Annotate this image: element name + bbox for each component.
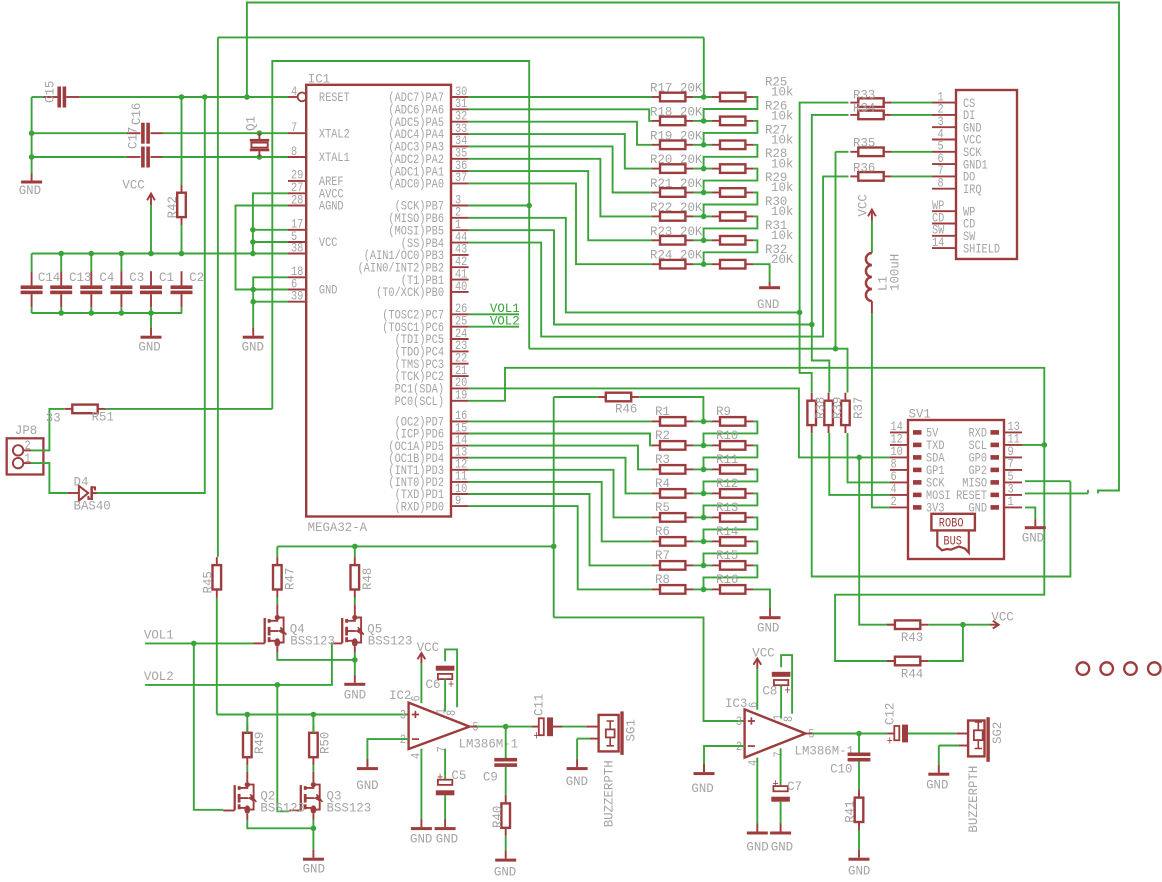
svg-text:IRQ: IRQ [963,182,982,198]
svg-text:8: 8 [444,710,460,716]
svg-text:20K: 20K [680,80,703,95]
svg-text:7: 7 [771,751,787,757]
svg-text:R14: R14 [716,523,739,538]
svg-text:GND: GND [410,831,433,846]
svg-text:BUZZERPTH: BUZZERPTH [601,760,616,827]
svg-text:R21: R21 [650,176,673,191]
svg-text:BSS123: BSS123 [290,633,335,648]
svg-text:R10: R10 [716,427,738,442]
svg-text:R41: R41 [842,800,857,823]
svg-text:R38: R38 [813,397,828,419]
svg-text:R5: R5 [655,499,670,514]
svg-text:R35: R35 [853,135,875,150]
svg-text:RESET: RESET [319,90,350,106]
svg-text:C4: C4 [99,270,114,285]
svg-text:GND: GND [691,780,714,795]
svg-text:R20: R20 [650,152,672,167]
svg-text:VOL1: VOL1 [144,627,174,642]
svg-text:C16: C16 [129,103,144,125]
svg-text:SG2: SG2 [990,722,1005,744]
svg-text:VCC: VCC [122,177,145,192]
svg-text:R8: R8 [655,571,670,586]
svg-text:IC1: IC1 [308,71,331,86]
svg-text:R2: R2 [655,427,670,442]
svg-text:R19: R19 [650,128,672,143]
svg-text:R17: R17 [650,80,672,95]
svg-text:1: 1 [1008,494,1014,510]
svg-text:R51: R51 [92,409,115,424]
svg-text:VOL2: VOL2 [144,668,174,683]
svg-text:2: 2 [891,494,897,510]
svg-text:C7: C7 [787,779,802,794]
svg-text:C13: C13 [69,270,91,285]
svg-text:R7: R7 [655,547,670,562]
svg-text:JP8: JP8 [15,422,37,437]
svg-text:R40: R40 [490,806,505,828]
svg-text:33: 33 [46,410,61,425]
svg-text:R18: R18 [650,104,672,119]
svg-text:+: + [785,683,791,699]
svg-text:LM386M-1: LM386M-1 [459,736,519,751]
svg-text:PC0(SCL): PC0(SCL) [395,394,444,410]
svg-text:+: + [534,728,540,744]
svg-text:20K: 20K [680,152,703,167]
svg-text:R37: R37 [851,397,866,419]
svg-text:20K: 20K [680,247,703,262]
svg-text:D4: D4 [74,474,89,489]
svg-text:+: + [448,677,454,693]
svg-text:C5: C5 [451,768,466,783]
svg-text:14: 14 [932,235,944,251]
svg-text:GND: GND [19,182,42,197]
svg-text:GND: GND [436,831,459,846]
svg-text:XTAL1: XTAL1 [319,150,350,166]
svg-text:GND: GND [138,339,161,354]
svg-text:SG1: SG1 [623,719,638,742]
svg-text:7: 7 [291,120,297,136]
svg-text:R1: R1 [655,403,670,418]
svg-text:20K: 20K [680,128,703,143]
svg-text:R49: R49 [252,732,267,754]
svg-text:VCC: VCC [417,640,440,655]
svg-text:GND: GND [757,620,780,635]
svg-text:R34: R34 [853,100,876,115]
svg-text:GND: GND [771,839,794,854]
svg-text:R39: R39 [830,397,845,419]
svg-text:+: + [437,770,443,786]
svg-text:3: 3 [736,714,742,730]
svg-text:GND: GND [848,863,871,878]
svg-text:GND: GND [303,861,326,876]
svg-text:MEGA32-A: MEGA32-A [308,519,368,534]
svg-text:BAS40: BAS40 [74,498,111,513]
svg-text:VCC: VCC [752,645,775,660]
svg-text:20K: 20K [680,104,703,119]
svg-text:20K: 20K [680,223,703,238]
svg-text:GND: GND [746,839,769,854]
svg-text:AGND: AGND [319,199,344,215]
svg-text:BSS123: BSS123 [368,633,413,648]
svg-text:R9: R9 [716,403,731,418]
svg-text:ROBO: ROBO [939,515,964,531]
svg-text:7: 7 [434,746,450,752]
svg-text:C17: C17 [125,127,140,149]
svg-text:20K: 20K [680,200,703,215]
svg-text:R24: R24 [650,247,673,262]
svg-text:VCC: VCC [855,194,870,217]
svg-text:38: 38 [291,240,303,256]
svg-text:R23: R23 [650,223,672,238]
svg-text:GND: GND [319,283,338,299]
svg-text:R11: R11 [716,451,739,466]
svg-text:R22: R22 [650,200,672,215]
svg-text:(T0/XCK)PB0: (T0/XCK)PB0 [376,285,444,301]
svg-text:R45: R45 [200,571,215,593]
svg-text:R6: R6 [655,523,670,538]
svg-text:GND: GND [242,339,265,354]
svg-text:GND: GND [344,687,367,702]
svg-text:+: + [887,733,893,749]
svg-text:C14: C14 [38,270,61,285]
svg-text:R4: R4 [655,475,670,490]
svg-text:20K: 20K [771,252,794,267]
svg-text:GND: GND [1022,530,1045,545]
svg-text:XTAL2: XTAL2 [319,126,350,142]
svg-text:VOL2: VOL2 [490,313,520,328]
svg-text:4: 4 [291,84,297,100]
svg-text:C8: C8 [762,683,777,698]
svg-text:R48: R48 [359,568,374,590]
svg-text:C11: C11 [531,693,546,716]
svg-text:Q1: Q1 [243,116,258,131]
svg-text:R13: R13 [716,499,738,514]
svg-text:6: 6 [746,702,762,708]
svg-text:C2: C2 [189,270,204,285]
svg-text:R15: R15 [716,547,738,562]
svg-text:R46: R46 [615,401,637,416]
svg-text:C3: C3 [129,270,144,285]
svg-text:BUZZERPTH: BUZZERPTH [966,766,981,833]
svg-text:+: + [773,776,779,792]
svg-text:GND: GND [356,777,379,792]
svg-text:28: 28 [291,192,303,208]
svg-text:BSS123: BSS123 [260,800,305,815]
svg-text:R3: R3 [655,451,670,466]
svg-text:SV1: SV1 [909,406,932,421]
svg-text:(RXD)PD0: (RXD)PD0 [395,499,444,515]
svg-text:100uH: 100uH [887,254,902,291]
svg-text:GND: GND [757,297,780,312]
svg-text:SHIELD: SHIELD [963,241,1000,257]
svg-text:R43: R43 [901,630,923,645]
svg-text:C15: C15 [42,81,57,103]
svg-text:BSS123: BSS123 [327,800,372,815]
svg-text:R44: R44 [901,666,924,681]
svg-text:3: 3 [400,707,406,723]
svg-text:R47: R47 [282,568,297,590]
svg-text:8: 8 [291,144,297,160]
svg-text:19: 19 [455,387,467,403]
svg-text:GND: GND [566,774,589,789]
svg-text:C1: C1 [159,270,174,285]
svg-text:(ADC0)PA0: (ADC0)PA0 [388,176,444,192]
svg-text:C9: C9 [483,769,498,784]
svg-text:39: 39 [291,288,303,304]
svg-text:9: 9 [455,493,461,509]
svg-text:GND: GND [494,864,517,879]
svg-text:C12: C12 [882,703,897,725]
svg-text:20K: 20K [680,176,703,191]
svg-text:IC3: IC3 [725,696,747,711]
svg-text:C10: C10 [830,761,852,776]
svg-text:8: 8 [781,716,797,722]
svg-text:37: 37 [455,170,467,186]
svg-text:R50: R50 [317,732,332,754]
svg-text:4: 4 [745,760,761,766]
svg-text:40: 40 [455,279,467,295]
svg-text:R42: R42 [165,196,180,218]
svg-text:8: 8 [938,175,944,191]
svg-text:R16: R16 [716,571,738,586]
svg-text:R36: R36 [853,160,875,175]
svg-text:VCC: VCC [991,609,1014,624]
svg-text:LM386M-1: LM386M-1 [795,743,855,758]
svg-text:VCC: VCC [319,235,338,251]
svg-text:C6: C6 [426,677,441,692]
svg-text:R12: R12 [716,475,738,490]
svg-text:BUS: BUS [943,533,962,549]
svg-text:GND: GND [926,777,949,792]
